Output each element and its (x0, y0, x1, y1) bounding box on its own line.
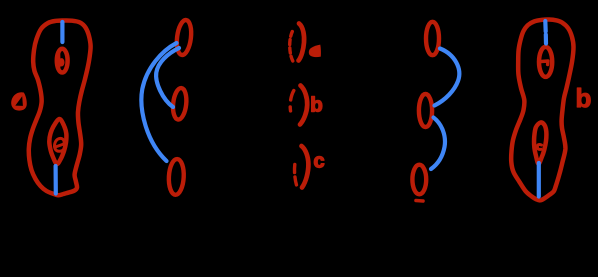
svg-text:c: c (314, 151, 325, 173)
svg-text:b: b (576, 83, 592, 113)
svg-text:b: b (310, 94, 323, 117)
